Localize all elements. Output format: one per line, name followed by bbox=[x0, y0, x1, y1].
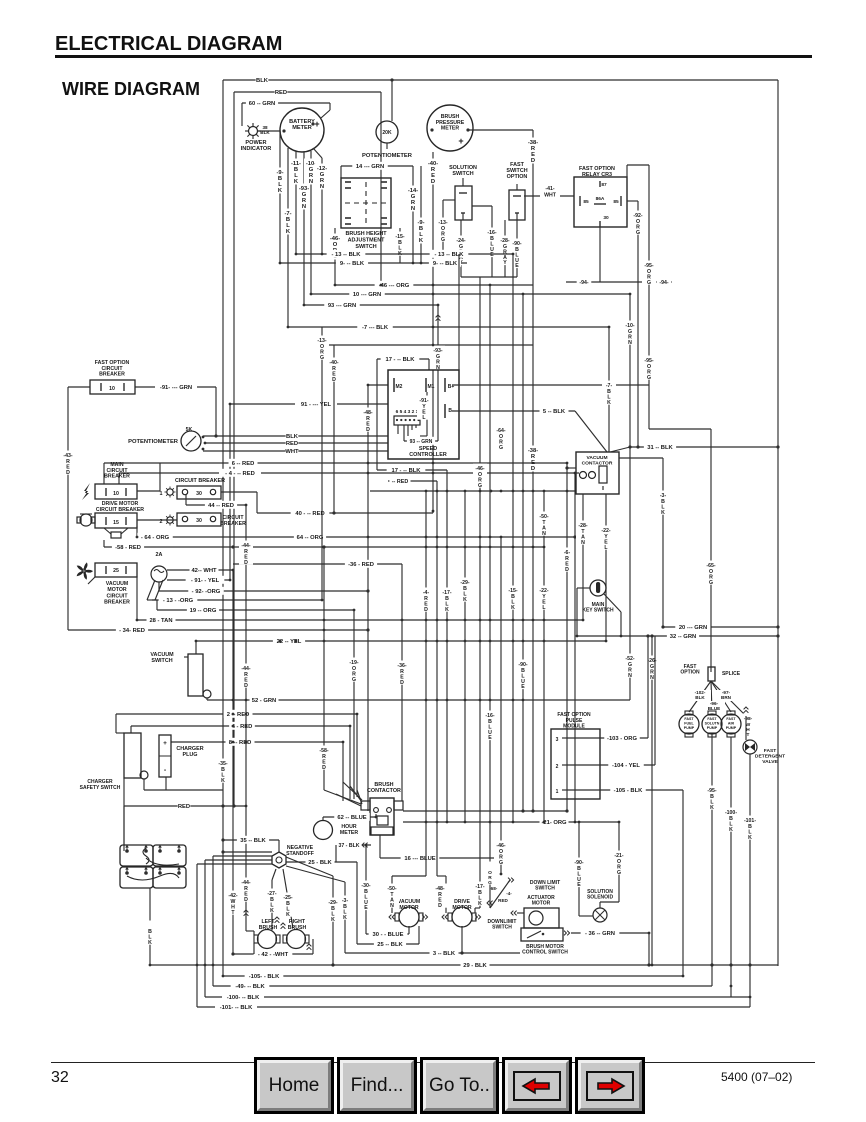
wire 13-ORG bbox=[152, 599, 322, 601]
svg-text:-58 - RED: -58 - RED bbox=[115, 545, 141, 551]
svg-text:E: E bbox=[364, 905, 368, 911]
wire 4-RED bus bbox=[119, 472, 579, 474]
wire -19-ORG vert bbox=[353, 610, 355, 799]
wire 6-RED bus bbox=[104, 462, 567, 464]
svg-text:-15-: -15- bbox=[508, 588, 517, 594]
wire -43-RED bbox=[67, 387, 69, 630]
main key switch bbox=[590, 580, 606, 596]
svg-text:D: D bbox=[424, 607, 428, 613]
svg-text:-65-: -65- bbox=[706, 563, 715, 569]
wire 32-GRN bbox=[577, 635, 778, 637]
wire -38-RED bbox=[468, 129, 533, 131]
wire pin leads bbox=[397, 425, 399, 434]
svg-text:-28-: -28- bbox=[500, 238, 509, 244]
wire standoff fan2 -49 bbox=[213, 855, 272, 857]
svg-text:Y: Y bbox=[503, 260, 507, 266]
svg-text:+: + bbox=[163, 740, 167, 747]
svg-text:32 -- GRN: 32 -- GRN bbox=[670, 634, 696, 640]
svg-text:MOTOR: MOTOR bbox=[107, 587, 126, 593]
svg-text:-19-: -19- bbox=[349, 660, 358, 666]
wire brush left lead bbox=[253, 943, 255, 954]
wire -97-BRN bbox=[716, 690, 736, 701]
svg-text:BLK: BLK bbox=[256, 78, 269, 84]
wire standoff -29-BLK bbox=[286, 857, 333, 876]
wire 20-GRN bbox=[663, 626, 778, 628]
svg-text:SWITCH: SWITCH bbox=[492, 925, 512, 931]
svg-text:WHT: WHT bbox=[285, 449, 299, 455]
wire -15-BLK switch bbox=[399, 228, 401, 263]
svg-text:D: D bbox=[565, 567, 569, 573]
svg-text:RED: RED bbox=[498, 898, 508, 903]
svg-text:CIRCUIT BREAKER: CIRCUIT BREAKER bbox=[96, 507, 144, 513]
wire -50-TAN bbox=[425, 822, 427, 876]
hour meter bbox=[314, 821, 333, 840]
wire 7-BLK vert bbox=[608, 327, 610, 452]
charger safety switch bbox=[124, 733, 141, 778]
svg-text:40 - -- RED: 40 - -- RED bbox=[295, 511, 324, 517]
wire 68-ORG bbox=[483, 862, 497, 885]
wire 34-RED bus bbox=[68, 629, 368, 631]
svg-text:SAFETY SWITCH: SAFETY SWITCH bbox=[80, 785, 121, 791]
svg-text:KEY SWITCH: KEY SWITCH bbox=[582, 608, 614, 614]
wire 17-BLK lower bbox=[377, 469, 447, 471]
svg-text:29 - BLK: 29 - BLK bbox=[463, 963, 487, 969]
svg-text:E: E bbox=[488, 735, 492, 741]
wire -10-GRN meter bbox=[310, 151, 312, 294]
wire 10-GRN bus bbox=[311, 293, 630, 295]
svg-text:-103 - ORG: -103 - ORG bbox=[607, 736, 637, 742]
wire -7-BLK meter bbox=[287, 148, 289, 327]
svg-text:-92-: -92- bbox=[633, 213, 642, 219]
svg-text:10: 10 bbox=[113, 491, 119, 497]
svg-text:-44-: -44- bbox=[241, 880, 250, 886]
svg-text:-21-: -21- bbox=[614, 853, 623, 859]
charger plug bbox=[159, 735, 171, 777]
svg-text:MOTOR: MOTOR bbox=[399, 905, 418, 911]
svg-text:VACUUM: VACUUM bbox=[586, 455, 607, 461]
svg-text:-17-: -17- bbox=[475, 884, 484, 890]
svg-text:3: 3 bbox=[556, 737, 559, 743]
wire 13-BLK bus bbox=[296, 253, 513, 255]
wire -104-YEL bbox=[567, 764, 655, 766]
wire -101-BLK vert bbox=[749, 754, 751, 1007]
wire 14-GRN bbox=[341, 165, 413, 167]
vacuum motor bbox=[399, 907, 419, 927]
svg-text:-- RED: -- RED bbox=[392, 479, 409, 485]
wire 100-BLK bbox=[205, 996, 750, 998]
svg-text:-95-: -95- bbox=[707, 788, 716, 794]
wire -46-ORG dl bbox=[500, 537, 502, 874]
svg-text:METER: METER bbox=[340, 830, 358, 836]
wire 42-WHT bbox=[167, 569, 233, 571]
svg-text:K: K bbox=[445, 607, 449, 613]
button Home bbox=[254, 1057, 334, 1114]
svg-text:-95-: -95- bbox=[644, 358, 653, 364]
svg-text:D: D bbox=[332, 377, 336, 383]
svg-text:D: D bbox=[531, 466, 535, 472]
wire -94- bbox=[599, 227, 601, 282]
svg-text:25: 25 bbox=[113, 568, 119, 574]
svg-text:-104 - YEL: -104 - YEL bbox=[612, 763, 640, 769]
svg-text:FAST: FAST bbox=[764, 748, 777, 754]
wire 2-RED bbox=[116, 713, 357, 715]
wire -98-WHT bbox=[741, 714, 755, 737]
wire -12-GRN bbox=[313, 148, 322, 158]
wire 8-RED bbox=[171, 741, 343, 743]
wire -13-ORG vert bbox=[321, 327, 323, 600]
svg-text:5 -- BLK: 5 -- BLK bbox=[543, 409, 566, 415]
svg-text:E: E bbox=[515, 263, 519, 269]
svg-text:SWITCH: SWITCH bbox=[355, 244, 376, 250]
wire -22-YEL contactor bbox=[605, 494, 607, 641]
svg-text:25 - BLK: 25 - BLK bbox=[308, 860, 332, 866]
svg-text:N: N bbox=[309, 179, 313, 185]
subtitle: WIRE DIAGRAM bbox=[62, 79, 200, 100]
svg-text:-64-: -64- bbox=[496, 428, 505, 434]
svg-text:-4-: -4- bbox=[423, 590, 430, 596]
svg-text:-43-: -43- bbox=[63, 453, 72, 459]
svg-text:86A: 86A bbox=[596, 196, 605, 202]
wire -92-ORG bbox=[627, 200, 638, 202]
svg-text:RED: RED bbox=[286, 441, 298, 447]
svg-text:BREAKER: BREAKER bbox=[220, 521, 246, 527]
svg-text:- 36 -- GRN: - 36 -- GRN bbox=[585, 931, 615, 937]
battery bank bbox=[120, 845, 153, 866]
svg-text:-46-: -46- bbox=[496, 843, 505, 849]
svg-text:G: G bbox=[636, 230, 640, 236]
svg-text:SWITCH: SWITCH bbox=[452, 171, 473, 177]
svg-text:G: G bbox=[647, 375, 651, 381]
svg-text:MOTOR: MOTOR bbox=[532, 901, 551, 907]
svg-text:30: 30 bbox=[603, 215, 609, 221]
svg-text:37 - BLK: 37 - BLK bbox=[338, 843, 359, 849]
svg-text:FAST: FAST bbox=[684, 717, 694, 721]
button Find... bbox=[337, 1057, 417, 1114]
svg-text:N: N bbox=[411, 206, 415, 212]
speed controller U1 bbox=[388, 370, 459, 459]
wire -30-BLUE bbox=[365, 845, 367, 934]
svg-text:17 - -- BLK: 17 - -- BLK bbox=[386, 357, 416, 363]
wire -48-RED bbox=[368, 384, 388, 386]
wire 19-ORG bbox=[156, 600, 158, 610]
wire battery BLK bbox=[149, 888, 151, 965]
svg-text:-12-: -12- bbox=[317, 166, 327, 172]
svg-text:93 --- GRN: 93 --- GRN bbox=[328, 303, 356, 309]
svg-text:-90-: -90- bbox=[518, 662, 527, 668]
wire 9-BLK bus bbox=[280, 262, 467, 264]
wire -90-BLUE bbox=[516, 220, 518, 277]
svg-text:9- -- BLK: 9- -- BLK bbox=[340, 261, 365, 267]
svg-text:31 -- BLK: 31 -- BLK bbox=[647, 445, 673, 451]
svg-text:PUMP: PUMP bbox=[684, 726, 695, 730]
svg-text:-35-: -35- bbox=[218, 761, 227, 767]
svg-text:-38-: -38- bbox=[528, 448, 538, 454]
wire -21-ORG vert bbox=[618, 822, 620, 902]
svg-text:-16-: -16- bbox=[485, 713, 494, 719]
svg-text:BLK: BLK bbox=[695, 695, 705, 700]
svg-text:D: D bbox=[366, 427, 370, 433]
svg-text:CONTROLLER: CONTROLLER bbox=[409, 452, 447, 458]
svg-text:-28-: -28- bbox=[578, 523, 587, 529]
svg-text:PLUG: PLUG bbox=[183, 752, 198, 758]
svg-text:N: N bbox=[390, 903, 394, 909]
splice bbox=[708, 667, 715, 681]
svg-text:-38-: -38- bbox=[528, 140, 538, 146]
drive motor bbox=[452, 907, 472, 927]
wire 40-RED bbox=[256, 492, 258, 513]
wire -26-GRN bbox=[651, 636, 653, 965]
svg-text:-40-: -40- bbox=[428, 161, 438, 167]
svg-text:+: + bbox=[458, 136, 463, 146]
svg-text:-25-: -25- bbox=[283, 895, 292, 901]
svg-text:T: T bbox=[747, 732, 750, 738]
svg-text:4 - RED: 4 - RED bbox=[232, 724, 253, 730]
svg-text:-90-: -90- bbox=[574, 860, 583, 866]
wire standoff fan1 bbox=[223, 851, 272, 853]
wire BLK top bus bbox=[223, 79, 778, 81]
power indicator lamp bbox=[249, 127, 258, 136]
potentiometer 20K bbox=[391, 80, 393, 121]
wire contactor left bbox=[567, 467, 576, 469]
svg-text:G: G bbox=[488, 880, 492, 886]
wire bundle v437 bbox=[436, 481, 438, 822]
wire bus 811 bbox=[403, 810, 567, 812]
wire 101-BLK bbox=[197, 1006, 750, 1008]
svg-text:10: 10 bbox=[109, 386, 115, 392]
svg-text:-46-: -46- bbox=[330, 236, 340, 242]
wire 4-RED low bbox=[131, 725, 350, 727]
svg-text:BREAKER: BREAKER bbox=[99, 372, 125, 378]
svg-text:15: 15 bbox=[113, 520, 119, 526]
svg-text:N: N bbox=[302, 204, 306, 210]
svg-text:PUMP: PUMP bbox=[707, 726, 718, 730]
wire RED top bus bbox=[234, 91, 381, 93]
brush motor control switch bbox=[521, 928, 563, 941]
svg-text:SOLENOID: SOLENOID bbox=[587, 895, 614, 901]
wire -102-BLK bbox=[689, 690, 711, 701]
svg-text:-11-: -11- bbox=[291, 161, 301, 167]
svg-text:K: K bbox=[607, 400, 611, 406]
svg-text:30: 30 bbox=[196, 491, 202, 497]
wire -9-BLK right bbox=[420, 166, 422, 263]
svg-text:CONTACTOR: CONTACTOR bbox=[582, 460, 613, 466]
svg-text:BLUE: BLUE bbox=[708, 706, 721, 711]
svg-text:K: K bbox=[729, 827, 733, 833]
svg-text:K: K bbox=[343, 915, 347, 921]
svg-text:-29-: -29- bbox=[328, 900, 337, 906]
svg-text:D: D bbox=[244, 560, 248, 566]
wire splice fan bbox=[689, 681, 711, 712]
svg-text:-3-: -3- bbox=[660, 493, 667, 499]
svg-text:E: E bbox=[577, 882, 581, 888]
svg-text:PUMP: PUMP bbox=[726, 726, 737, 730]
wire bundle v459 bbox=[458, 254, 460, 370]
svg-text:METER: METER bbox=[441, 126, 459, 132]
wire -96-BLUE bbox=[703, 701, 725, 712]
svg-text:DETERGENT: DETERGENT bbox=[755, 754, 785, 760]
svg-text:20 --- GRN: 20 --- GRN bbox=[679, 625, 707, 631]
wire bundle v575 bbox=[574, 473, 576, 822]
wire 62-BLUE bbox=[323, 816, 376, 818]
svg-text:CIRCUIT BREAKER: CIRCUIT BREAKER bbox=[175, 478, 225, 484]
svg-text:-105- - BLK: -105- - BLK bbox=[249, 974, 280, 980]
wire 25-BLK standoff bbox=[286, 861, 357, 863]
svg-text:- 42 - -WHT: - 42 - -WHT bbox=[258, 952, 289, 958]
brush pressure meter bbox=[427, 105, 473, 151]
svg-text:2: 2 bbox=[556, 764, 559, 770]
svg-text:-90-: -90- bbox=[512, 241, 521, 247]
wire -91-YEL bbox=[426, 392, 428, 436]
wire 22-YEL bus bbox=[196, 640, 606, 642]
wire -13-ORG sol bbox=[443, 199, 455, 201]
svg-text:D: D bbox=[66, 470, 70, 476]
svg-text:N: N bbox=[628, 340, 632, 346]
svg-text:RELAY CR3: RELAY CR3 bbox=[582, 172, 612, 178]
svg-text:G: G bbox=[499, 445, 503, 451]
wire -29-BLK vert bbox=[464, 492, 466, 822]
svg-text:E: E bbox=[521, 684, 525, 690]
svg-text:68-: 68- bbox=[491, 886, 498, 891]
svg-text:SWITCH: SWITCH bbox=[535, 886, 555, 892]
svg-text:SOLUTN: SOLUTN bbox=[705, 721, 720, 725]
wire 28-TAN bus bbox=[136, 576, 138, 620]
svg-text:-94-: -94- bbox=[579, 280, 588, 286]
svg-text:14 --- GRN: 14 --- GRN bbox=[356, 164, 384, 170]
svg-text:2: 2 bbox=[160, 519, 163, 525]
svg-text:SPEED: SPEED bbox=[419, 446, 437, 452]
svg-text:-105 - BLK: -105 - BLK bbox=[614, 788, 643, 794]
wire -58-RED vert bbox=[323, 547, 325, 790]
svg-text:-46 --- ORG: -46 --- ORG bbox=[379, 283, 410, 289]
wire 7-BLK bus bbox=[288, 326, 609, 328]
svg-text:-95-: -95- bbox=[644, 263, 653, 269]
svg-text:-93-: -93- bbox=[433, 348, 442, 354]
wire battery RED bbox=[124, 805, 246, 807]
svg-text:-101- -- BLK: -101- -- BLK bbox=[220, 1005, 253, 1011]
svg-text:STANDOFF: STANDOFF bbox=[286, 851, 314, 857]
wire 17-BLK upper bbox=[377, 358, 429, 360]
svg-text:-6-: -6- bbox=[564, 550, 571, 556]
svg-text:-7-: -7- bbox=[606, 383, 613, 389]
wire -22-YEL vert bbox=[543, 491, 545, 822]
svg-text:G: G bbox=[709, 580, 713, 586]
svg-text:FAST: FAST bbox=[726, 717, 736, 721]
wire -91-GRN bbox=[135, 386, 216, 388]
svg-text:64 -- ORG: 64 -- ORG bbox=[297, 535, 324, 541]
svg-text:POTENTIOMETER: POTENTIOMETER bbox=[128, 439, 179, 445]
svg-text:G: G bbox=[320, 355, 324, 361]
svg-text:D: D bbox=[531, 158, 535, 164]
svg-text:-16-: -16- bbox=[487, 230, 496, 236]
wire 105-BLK bbox=[223, 975, 683, 977]
wire -17-BLK vert bbox=[446, 470, 448, 822]
svg-text:CIRCUIT: CIRCUIT bbox=[106, 593, 128, 599]
wire 36-GRN bbox=[571, 932, 649, 934]
svg-text:D: D bbox=[244, 897, 248, 903]
svg-text:BRN: BRN bbox=[721, 695, 732, 700]
svg-text:-3-: -3- bbox=[342, 898, 349, 904]
svg-text:K: K bbox=[710, 805, 714, 811]
wire pot RED bbox=[205, 442, 388, 444]
svg-text:-42-: -42- bbox=[228, 893, 237, 899]
wire -15-BLK vert bbox=[512, 254, 514, 822]
svg-text:-9-: -9- bbox=[417, 220, 424, 226]
wire standoff fan4 -101 bbox=[197, 863, 272, 865]
svg-text:60 -- GRN: 60 -- GRN bbox=[249, 101, 275, 107]
wire -36-RED bbox=[233, 563, 402, 565]
svg-text:N: N bbox=[628, 673, 632, 679]
svg-text:D: D bbox=[431, 179, 435, 185]
svg-text:- 13 - -ORG: - 13 - -ORG bbox=[163, 598, 194, 604]
negative standoff bbox=[272, 852, 286, 868]
svg-text:K: K bbox=[463, 597, 467, 603]
wire gray-blue merge bbox=[461, 276, 517, 278]
doc number 5400 (07-02) bbox=[721, 1070, 792, 1084]
wire standoff -3-BLK bbox=[286, 866, 345, 882]
svg-text:OPTION: OPTION bbox=[507, 174, 528, 180]
svg-text:-58-: -58- bbox=[319, 748, 328, 754]
svg-text:-91-: -91- bbox=[419, 398, 428, 404]
svg-text:FUEL: FUEL bbox=[684, 721, 694, 725]
svg-text:-10-: -10- bbox=[625, 323, 634, 329]
svg-text:-101-: -101- bbox=[744, 818, 756, 824]
svg-text:K: K bbox=[331, 917, 335, 923]
wire -58-RED bus bbox=[103, 540, 105, 547]
svg-text:2A: 2A bbox=[156, 552, 163, 558]
svg-text:91 - --- YEL: 91 - --- YEL bbox=[301, 402, 332, 408]
svg-text:K: K bbox=[286, 912, 290, 918]
wire -103-ORG bbox=[567, 737, 648, 739]
svg-text:E: E bbox=[490, 252, 494, 258]
svg-text:3 -- BLK: 3 -- BLK bbox=[433, 951, 456, 957]
svg-text:-7 --- BLK: -7 --- BLK bbox=[362, 325, 389, 331]
svg-text:MODULE: MODULE bbox=[563, 724, 585, 730]
wire right border bbox=[777, 80, 779, 966]
svg-text:-36-: -36- bbox=[397, 663, 406, 669]
svg-text:-: - bbox=[164, 767, 167, 774]
svg-text:SWITCH: SWITCH bbox=[151, 658, 172, 664]
svg-text:-46-: -46- bbox=[475, 466, 484, 472]
button next page bbox=[575, 1057, 645, 1114]
svg-text:9- -- BLK: 9- -- BLK bbox=[433, 261, 458, 267]
svg-text:-24-: -24- bbox=[456, 238, 465, 244]
wire -105-BLK module bbox=[567, 789, 683, 791]
vacuum contactor bbox=[576, 452, 619, 494]
svg-text:1: 1 bbox=[556, 789, 559, 795]
title: ELECTRICAL DIAGRAM bbox=[55, 33, 282, 56]
wire mid bus 345 bbox=[322, 344, 533, 346]
wire bus 491 bbox=[370, 490, 575, 492]
fast option pulse module bbox=[551, 729, 600, 799]
svg-text:-40-: -40- bbox=[329, 360, 338, 366]
wire B+ line bbox=[452, 384, 649, 386]
svg-text:VACUUM: VACUUM bbox=[106, 581, 128, 587]
svg-text:BATTERY: BATTERY bbox=[289, 119, 315, 125]
svg-text:-9-: -9- bbox=[276, 170, 283, 176]
svg-text:- 91- - YEL: - 91- - YEL bbox=[191, 578, 220, 584]
svg-text:BRUSH: BRUSH bbox=[288, 925, 307, 931]
svg-text:44 -- RED: 44 -- RED bbox=[208, 503, 234, 509]
battery meter bbox=[280, 108, 324, 152]
svg-text:-21- ORG: -21- ORG bbox=[541, 820, 567, 826]
vacuum motor circuit breaker bbox=[82, 569, 86, 573]
svg-text:BRUSH: BRUSH bbox=[259, 925, 278, 931]
svg-text:-48-: -48- bbox=[363, 410, 372, 416]
wire 37-BLK bbox=[336, 844, 371, 846]
svg-text:-50-: -50- bbox=[539, 514, 548, 520]
svg-text:-13-: -13- bbox=[438, 220, 447, 226]
wire -10-GRN vert bbox=[629, 294, 631, 700]
